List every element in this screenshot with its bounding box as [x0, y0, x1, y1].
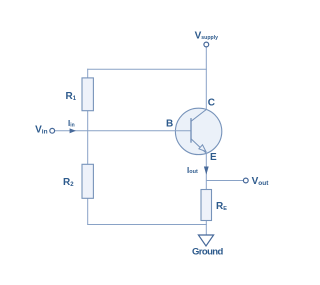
wire bottom rail: [87, 224, 207, 226]
wire Vin to base: [55, 130, 191, 132]
terminal Vin: [50, 128, 55, 133]
svg-text:Vin: Vin: [35, 125, 47, 136]
transistor Q1 emitter arrowhead: [199, 145, 206, 152]
svg-text:RE: RE: [216, 201, 227, 212]
wire emitter lead: [205, 153, 207, 235]
current arrow Iout: [204, 167, 209, 175]
svg-text:B: B: [166, 119, 173, 130]
svg-text:R1: R1: [66, 91, 77, 102]
wire collector lead: [205, 69, 207, 109]
wire to Vout: [206, 180, 243, 182]
svg-text:Iin: Iin: [68, 119, 75, 128]
transistor Q1 collector stroke: [191, 110, 206, 122]
svg-text:Iout: Iout: [187, 166, 198, 175]
wire left branch R1-R2: [87, 69, 89, 225]
resistor RE: [201, 190, 212, 221]
transistor Q1 base bar: [190, 118, 192, 143]
svg-text:Ground: Ground: [192, 246, 223, 257]
svg-text:E: E: [210, 152, 217, 163]
resistor R2: [82, 164, 93, 198]
svg-text:C: C: [208, 97, 215, 108]
transistor Q1 emitter stroke: [191, 139, 206, 154]
svg-text:Vout: Vout: [252, 176, 270, 187]
wire top rail: [87, 68, 207, 70]
wire Vsupply drop: [205, 47, 207, 69]
transistor Q1 body: [175, 108, 221, 154]
terminal Vsupply: [204, 42, 209, 47]
svg-text:Vsupply: Vsupply: [195, 31, 219, 42]
terminal Vout: [243, 178, 248, 183]
svg-text:R2: R2: [63, 177, 74, 188]
resistor R1: [82, 78, 93, 111]
current arrow Iin: [70, 128, 76, 133]
ground symbol: [198, 235, 213, 246]
